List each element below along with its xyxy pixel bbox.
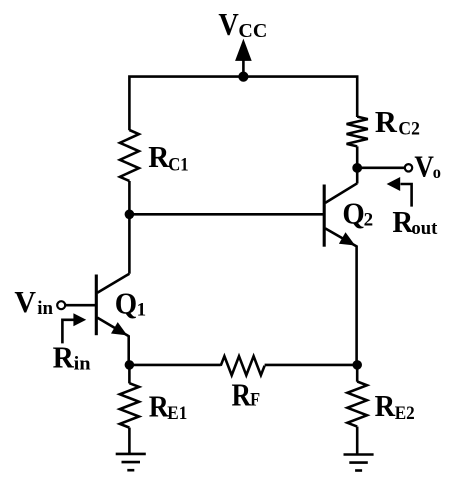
svg-text:R: R: [232, 376, 252, 412]
ground symbol left: [116, 454, 146, 470]
svg-text:in: in: [37, 298, 53, 319]
wire top rail: [129, 77, 357, 131]
label Q1: [115, 285, 146, 320]
label RF: [232, 376, 261, 412]
svg-text:V: V: [14, 284, 36, 319]
wire bottom right segment: [265, 364, 358, 367]
wire Vin terminal to Q1 base: [65, 304, 96, 307]
wire bottom left segment: [129, 364, 220, 367]
Rin arrow: [62, 313, 86, 343]
svg-text:R: R: [149, 389, 170, 424]
svg-text:in: in: [74, 353, 91, 374]
svg-text:F: F: [250, 390, 260, 411]
resistor RC1: [120, 130, 139, 181]
wire Q2 collector vertical to Vo node: [356, 168, 359, 184]
wire RE2 to ground: [356, 427, 359, 455]
svg-text:Q: Q: [342, 196, 364, 231]
svg-text:V: V: [414, 148, 434, 183]
terminal circle Vo: [405, 164, 412, 171]
svg-text:R: R: [375, 104, 398, 139]
svg-text:1: 1: [137, 300, 147, 321]
Rout arrow: [387, 177, 412, 207]
wire node to RE2: [356, 365, 359, 382]
resistor RC2: [347, 117, 368, 147]
svg-text:Q: Q: [115, 285, 137, 320]
label RC1: [148, 139, 189, 176]
resistor RF: [221, 356, 265, 375]
wire mid horizontal node A to Q2 base: [129, 213, 324, 216]
wire Rc2 to Vo node: [356, 146, 359, 168]
wire node to RE1: [128, 365, 131, 384]
svg-text:R: R: [375, 388, 396, 423]
svg-text:R: R: [53, 340, 75, 375]
transistor Q2: [324, 183, 357, 365]
resistor RE2: [347, 382, 367, 427]
svg-text:C2: C2: [398, 118, 420, 139]
label RE1: [149, 389, 188, 425]
wire RE1 to ground: [128, 428, 131, 454]
label Q2: [342, 196, 373, 231]
junction dot Q2 emitter node: [352, 360, 362, 370]
label Vcc: [218, 6, 267, 42]
resistor RE1: [120, 383, 139, 427]
label RE2: [375, 388, 415, 424]
label Rout: [392, 204, 438, 239]
junction dot Vo node: [352, 163, 362, 173]
wire Rc1 to node A: [128, 181, 131, 214]
transistor Q1: [96, 274, 129, 365]
label Vin: [14, 284, 53, 319]
svg-text:V: V: [218, 6, 238, 42]
svg-text:C1: C1: [168, 155, 189, 176]
label RC2: [375, 104, 420, 140]
label Rin: [53, 340, 91, 375]
junction dot Q1 emitter node: [125, 360, 135, 370]
label Vo: [414, 148, 441, 183]
ground symbol right: [344, 455, 374, 471]
Vcc supply arrow: [235, 39, 252, 77]
junction dot Vcc node: [238, 72, 248, 82]
svg-text:E1: E1: [167, 403, 187, 424]
svg-text:CC: CC: [238, 20, 267, 42]
wire Vo node to output terminal: [357, 167, 404, 170]
svg-text:out: out: [411, 218, 438, 239]
junction dot node A (Q1 collector / Q2 base): [125, 210, 135, 220]
terminal circle Vin: [57, 301, 65, 309]
svg-text:o: o: [433, 162, 441, 182]
svg-text:E2: E2: [395, 403, 415, 424]
svg-text:2: 2: [364, 209, 374, 230]
svg-text:R: R: [148, 139, 170, 174]
wire node A down to Q1 collector: [128, 214, 131, 273]
